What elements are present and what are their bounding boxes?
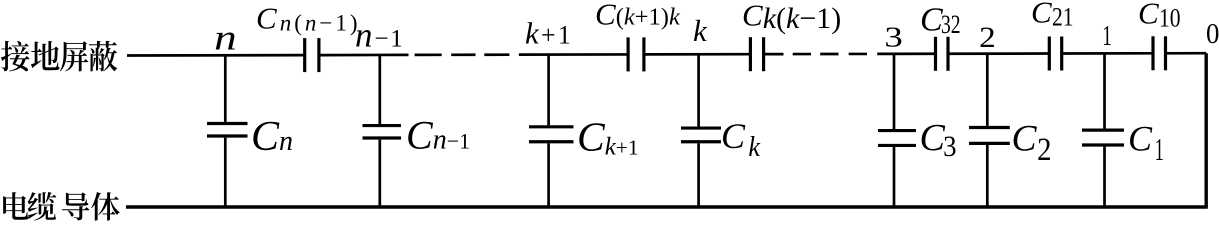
capacitor C_k(k-1) (series, right of node k) (750, 37, 763, 71)
wire: dashed rail segment between C_k(k-1) and node 3 (793, 53, 867, 56)
net label 接地屏蔽 (grounded shield) (1, 41, 117, 72)
svg-text:1: 1 (1102, 20, 1112, 52)
svg-text:21: 21 (1052, 3, 1074, 32)
svg-text:C: C (1138, 0, 1159, 30)
svg-text:C(k+1)k: C(k+1)k (595, 0, 681, 32)
capacitor C_k+1 (shunt to cable conductor) (529, 127, 574, 142)
svg-text:Ck+1: Ck+1 (577, 114, 639, 161)
wire: vertical from top rail down to capacitor C_2 (986, 54, 989, 126)
wire: top rail segment through node 3 to C_32 left plate (877, 52, 936, 55)
svg-text:C: C (1012, 119, 1038, 160)
wire: vertical from capacitor C_2 down to bottom rail (986, 145, 989, 207)
svg-text:3: 3 (943, 130, 956, 163)
svg-text:Cn(n−1): Cn(n−1) (256, 1, 361, 36)
wire: bottom rail (cable conductor) (126, 205, 1208, 208)
svg-text:k+1: k+1 (525, 16, 573, 51)
svg-text:C: C (920, 117, 946, 159)
svg-text:1: 1 (1155, 131, 1164, 167)
net label 电缆导体 (cable conductor) (3, 192, 120, 221)
wire: top rail segment from C_10 right plate to node 0 (1165, 52, 1206, 55)
capacitor C_32 (series, between nodes 3 and 2) (936, 37, 949, 71)
svg-text:C: C (721, 116, 746, 156)
capacitor C_1 (shunt to cable conductor) (1082, 130, 1124, 145)
svg-text:2: 2 (1037, 132, 1051, 168)
svg-text:3: 3 (884, 21, 902, 53)
svg-text:k: k (748, 132, 760, 163)
svg-text:C: C (1031, 0, 1052, 29)
svg-text:C: C (1128, 119, 1153, 159)
svg-text:Ck(k−1): Ck(k−1) (742, 0, 841, 35)
wire: vertical from top rail down to capacitor C_n (224, 55, 227, 122)
wire: right edge vertical from node 0 to bottom rail (1204, 53, 1207, 207)
svg-text:Cn: Cn (251, 114, 293, 160)
wire: vertical from top rail down to capacitor C_3 (893, 54, 896, 129)
wire: top rail segment through node k+1 to C_(k+1)k left plate (519, 53, 627, 56)
wire: vertical from capacitor C_k+1 down to bottom rail (547, 143, 550, 207)
wire: vertical from capacitor C_3 down to bottom rail (893, 147, 896, 207)
capacitor C_n(n-1) (series, between nodes n and n-1) (305, 38, 319, 72)
svg-text:n−1: n−1 (355, 16, 405, 55)
svg-text:C: C (920, 2, 943, 39)
svg-text:2: 2 (979, 21, 996, 54)
svg-text:0: 0 (1206, 18, 1219, 50)
svg-text:k: k (693, 13, 708, 48)
wire: vertical from capacitor C_1 down to bottom rail (1103, 147, 1106, 207)
svg-text:10: 10 (1159, 4, 1181, 33)
svg-text:n: n (214, 18, 237, 58)
wire: dashed rail segment between node n-1 and node k+1 (415, 53, 510, 56)
wire: top rail segment from C_(k+1)k right plate through node k to C_k(k-1) left plate (645, 53, 749, 56)
wire: top rail segment from C_21 right plate through node 1 to C_10 left plate (1062, 52, 1153, 55)
wire: top rail segment from C_k(k-1) right plate to dashes (765, 53, 784, 56)
wire: vertical from top rail down to capacitor C_k (697, 54, 700, 126)
capacitor C_21 (series, between nodes 2 and 1) (1049, 37, 1061, 71)
capacitor C_2 (shunt to cable conductor) (969, 128, 1010, 144)
capacitor C_k (shunt to cable conductor) (681, 128, 721, 142)
capacitor C_(k+1)k (series, between nodes k+1 and k) (628, 37, 644, 71)
wire: vertical from capacitor C_n-1 down to bottom rail (378, 140, 381, 207)
wire: vertical from top rail down to capacitor C_n-1 (378, 55, 381, 124)
wire: vertical from top rail down to capacitor C_k+1 (547, 55, 550, 126)
wire: vertical from capacitor C_n down to bottom rail (224, 138, 227, 207)
wire: top rail segment from C_32 right plate through node 2 to C_21 left plate (948, 52, 1050, 55)
wire: vertical from capacitor C_k down to bottom rail (697, 143, 700, 207)
svg-text:32: 32 (941, 10, 961, 39)
wire: top rail segment from C_n(n-1) right plate to node n-1 (320, 54, 408, 57)
svg-text:Cn−1: Cn−1 (406, 113, 470, 158)
capacitor C_3 (shunt to cable conductor) (878, 131, 916, 146)
capacitor C_n-1 (shunt to cable conductor) (363, 126, 402, 138)
wire: top rail segment from 接地屏蔽 to C_n(n-1) left plate (127, 54, 304, 57)
capacitor C_n (shunt to cable conductor) (207, 124, 248, 137)
wire: vertical from top rail down to capacitor C_1 (1103, 53, 1106, 128)
capacitor C_10 (series, between nodes 1 and 0) (1153, 36, 1166, 70)
